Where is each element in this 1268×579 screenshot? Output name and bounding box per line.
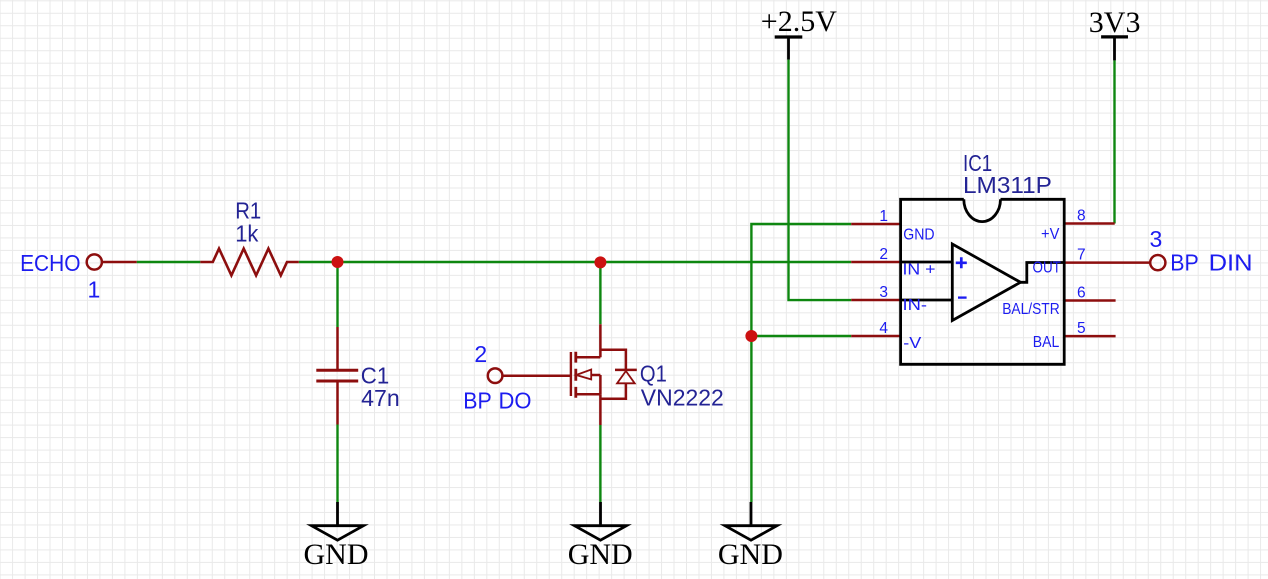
svg-text:GND: GND <box>568 538 633 571</box>
svg-text:4: 4 <box>879 320 888 337</box>
svg-text:1: 1 <box>879 208 888 225</box>
svg-text:Q1: Q1 <box>640 360 667 386</box>
svg-text:VN2222: VN2222 <box>641 385 724 411</box>
svg-text:GND: GND <box>903 227 934 244</box>
svg-text:GND: GND <box>718 538 783 571</box>
svg-text:LM311P: LM311P <box>963 172 1052 198</box>
svg-text:1: 1 <box>88 277 101 303</box>
svg-text:BAL: BAL <box>1033 334 1060 351</box>
svg-text:+2.5V: +2.5V <box>761 5 837 38</box>
svg-text:GND: GND <box>304 538 369 571</box>
svg-text:BAL/STR: BAL/STR <box>1002 301 1059 318</box>
svg-text:1k: 1k <box>235 221 259 247</box>
svg-text:8: 8 <box>1077 207 1086 224</box>
svg-text:3: 3 <box>1150 226 1163 252</box>
svg-text:BP: BP <box>1170 249 1199 275</box>
svg-text:5: 5 <box>1077 320 1086 337</box>
svg-text:3: 3 <box>879 284 888 301</box>
svg-text:IN-: IN- <box>903 297 928 314</box>
svg-text:ECHO: ECHO <box>20 250 80 276</box>
svg-text:OUT: OUT <box>1033 259 1062 276</box>
svg-text:+V: +V <box>1041 226 1060 243</box>
svg-text:47n: 47n <box>361 385 400 411</box>
svg-text:6: 6 <box>1077 284 1086 301</box>
svg-text:BP: BP <box>463 387 492 413</box>
svg-text:DIN: DIN <box>1209 249 1253 275</box>
svg-text:R1: R1 <box>235 197 261 223</box>
svg-text:7: 7 <box>1077 246 1086 263</box>
svg-text:IN +: IN + <box>903 261 936 278</box>
svg-text:2: 2 <box>474 341 487 367</box>
svg-text:-V: -V <box>903 335 921 352</box>
svg-text:3V3: 3V3 <box>1089 6 1141 39</box>
svg-text:2: 2 <box>879 246 888 263</box>
svg-text:DO: DO <box>499 387 532 413</box>
